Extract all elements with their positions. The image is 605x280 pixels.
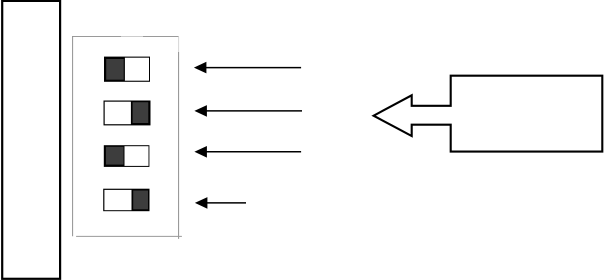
arrow to SW3: [194, 146, 301, 158]
switch SW4 (on = right): [103, 189, 149, 212]
switch SW1 (on = left): [104, 57, 150, 82]
switch SW2 (on = right): [104, 101, 151, 126]
switch block frame: [72, 36, 182, 239]
switch SW3 (on = left): [104, 145, 150, 167]
arrow to SW1: [194, 62, 301, 74]
left panel rectangle: [2, 1, 60, 279]
arrow to SW4: [195, 197, 246, 209]
arrow to SW2: [194, 105, 302, 117]
block arrow callout (left-pointing arrow joined to label box): [374, 76, 603, 152]
